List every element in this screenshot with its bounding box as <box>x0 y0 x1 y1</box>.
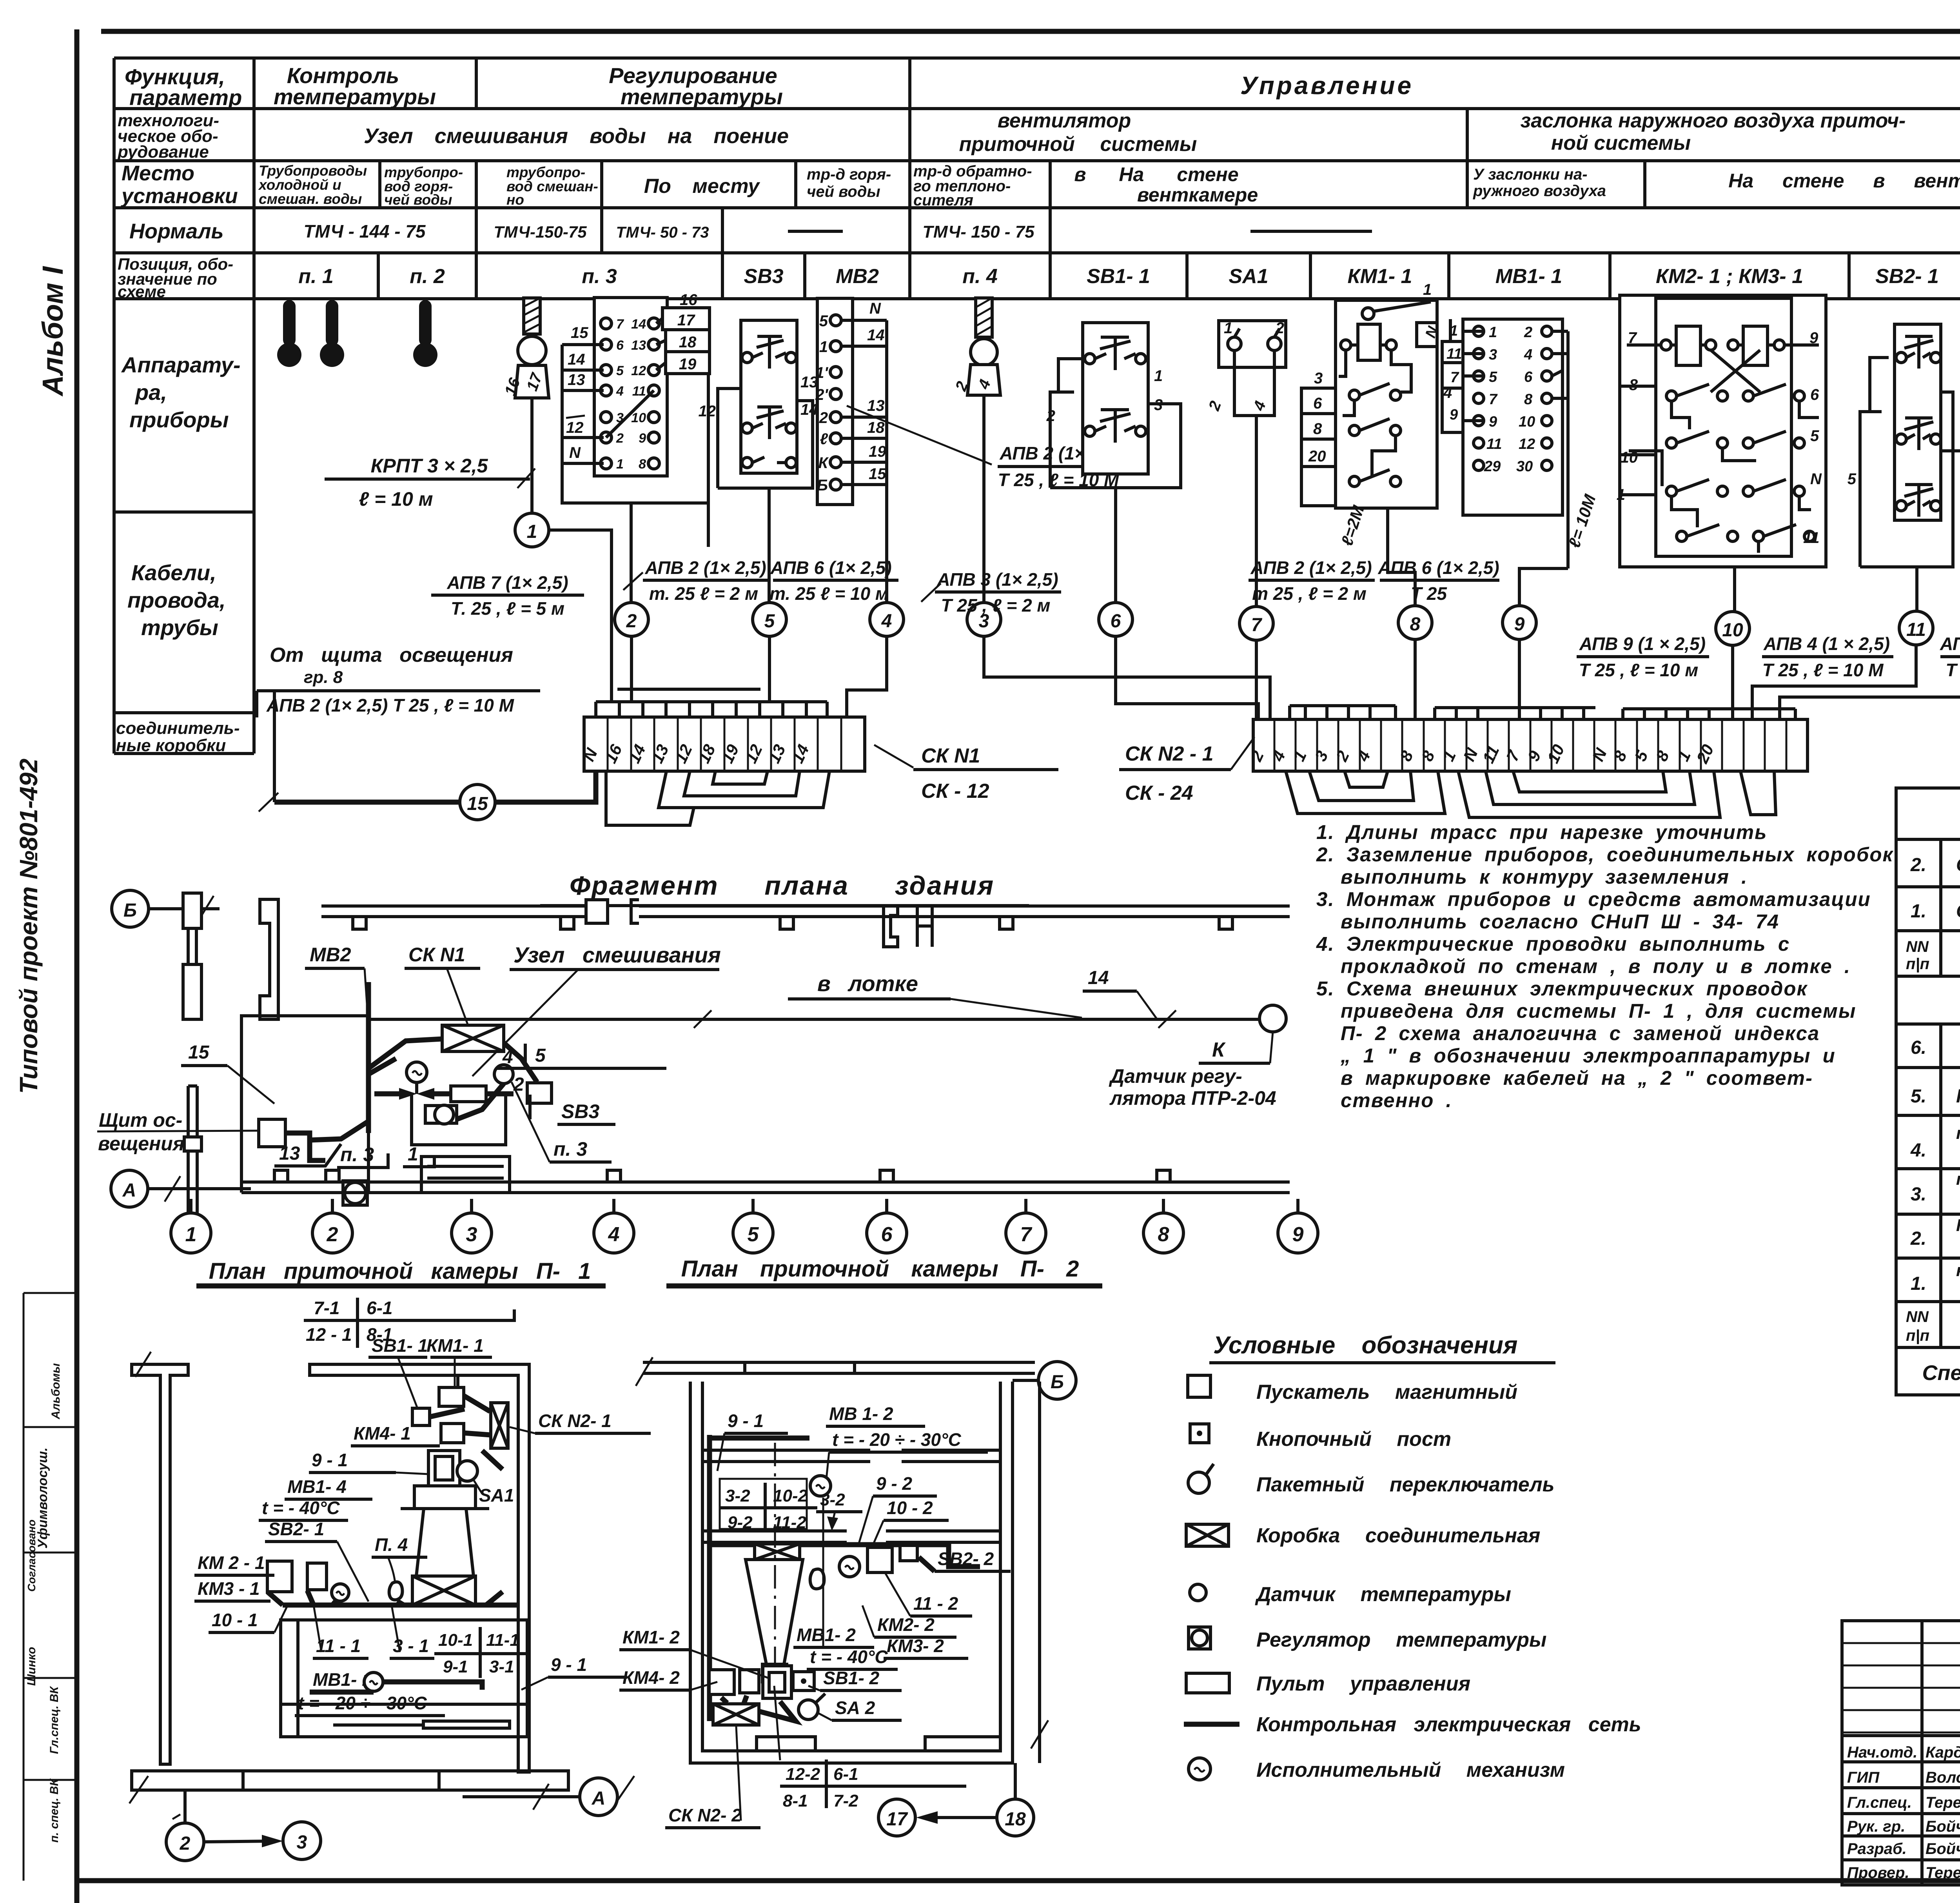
svg-text:8: 8 <box>1524 391 1533 408</box>
svg-text:Разраб.: Разраб. <box>1847 1840 1907 1858</box>
svg-text:Альбом I: Альбом I <box>36 266 69 397</box>
svg-text:1: 1 <box>185 1223 197 1246</box>
wire loops under СК N1 <box>659 771 829 808</box>
svg-text:КМ1- 1: КМ1- 1 <box>1348 265 1412 288</box>
svg-text:Пакетный переключатель: Пакетный переключатель <box>1256 1473 1554 1496</box>
header table texts <box>116 63 1960 755</box>
svg-text:чей воды: чей воды <box>807 183 880 200</box>
svg-text:АПВ 2 (1× 2,5) Т 25 , ℓ = 10: АПВ 2 (1× 2,5) Т 25 , ℓ = 10 М <box>266 695 515 715</box>
notes text <box>1316 821 1894 1111</box>
svg-text:1': 1' <box>815 364 828 381</box>
svg-text:Т. 25 , ℓ = 5 м: Т. 25 , ℓ = 5 м <box>451 598 564 619</box>
svg-text:но: но <box>506 192 524 208</box>
svg-text:СК N2 - 1: СК N2 - 1 <box>1125 743 1214 765</box>
thick cables to boxes <box>430 1409 465 1417</box>
axis 2-3 arrows П-1 <box>166 1790 321 1861</box>
svg-text:СК N2- 2: СК N2- 2 <box>668 1805 742 1825</box>
node 9 <box>1503 606 1536 639</box>
svg-text:Терещенко: Терещенко <box>1926 1794 1960 1811</box>
svg-text:прокладкой по стенам , в полу: прокладкой по стенам , в полу и в лотке … <box>1341 955 1851 977</box>
svg-text:SВ3: SВ3 <box>744 265 783 288</box>
svg-text:7: 7 <box>1020 1223 1033 1246</box>
svg-text:ℓ: ℓ <box>820 430 828 448</box>
svg-text:Т 25: Т 25 <box>1411 583 1447 604</box>
svg-text:Т 25 , ℓ = 10 М: Т 25 , ℓ = 10 М <box>1762 660 1884 680</box>
svg-text:20: 20 <box>1308 448 1326 465</box>
svg-text:2: 2 <box>327 1223 338 1246</box>
wire loops under СК N2-1 <box>1286 771 1445 813</box>
svg-text:9 - 2: 9 - 2 <box>876 1473 912 1494</box>
svg-text:Кардонский: Кардонский <box>1926 1744 1960 1761</box>
svg-text:5: 5 <box>1489 369 1497 385</box>
svg-text:9 - 1: 9 - 1 <box>312 1450 348 1470</box>
svg-text:трубы: трубы <box>141 615 218 640</box>
svg-text:4: 4 <box>502 1047 513 1068</box>
svg-text:лятора ПТР-2-04: лятора ПТР-2-04 <box>1109 1087 1276 1109</box>
svg-text:10-1: 10-1 <box>438 1631 473 1650</box>
svg-text:Кабель с медной жилои: Кабель с медной жилои <box>1956 1216 1960 1235</box>
svg-text:18: 18 <box>679 334 697 351</box>
svg-text:3: 3 <box>466 1223 477 1246</box>
node 7 <box>1240 606 1273 640</box>
svg-text:установки: установки <box>120 184 238 208</box>
svg-text:4.: 4. <box>1910 1140 1926 1161</box>
title block <box>1842 1621 1960 1885</box>
node 1 <box>515 513 549 547</box>
svg-text:Условные обозначения: Условные обозначения <box>1213 1332 1517 1359</box>
svg-text:1.: 1. <box>1911 1273 1926 1294</box>
svg-text:6: 6 <box>1111 611 1121 632</box>
svg-text:7-1: 7-1 <box>314 1298 339 1318</box>
axis bubbles 17 18 <box>878 1799 915 1836</box>
svg-text:5: 5 <box>535 1045 546 1066</box>
svg-text:АПВ 2 (1× 2,5): АПВ 2 (1× 2,5) <box>644 557 766 578</box>
contactors КМ2-1 КМ3-1 <box>1617 295 1826 567</box>
svg-text:П- 2 схема аналогична с за: П- 2 схема аналогична с заменой индекса <box>1341 1022 1820 1044</box>
svg-text:SВ1- 1: SВ1- 1 <box>372 1335 428 1356</box>
svg-text:гр. 8: гр. 8 <box>304 668 343 687</box>
node 8 <box>1398 606 1432 639</box>
svg-text:8: 8 <box>1313 420 1322 438</box>
svg-text:КМ 2 - 1: КМ 2 - 1 <box>198 1553 265 1573</box>
svg-text:Узел смешивания воды на п: Узел смешивания воды на поение <box>364 124 789 148</box>
svg-text:Фрагмент плана здания: Фрагмент плана здания <box>570 871 995 901</box>
node 11 <box>1899 611 1933 645</box>
cable tag АПВ9 <box>1577 634 1709 680</box>
svg-text:6.: 6. <box>1911 1037 1926 1058</box>
svg-text:2: 2 <box>513 1074 524 1095</box>
motor and sensor <box>839 1556 860 1577</box>
svg-text:Бойчук: Бойчук <box>1926 1840 1960 1858</box>
svg-text:п. 3: п. 3 <box>554 1138 587 1160</box>
svg-text:3: 3 <box>297 1832 307 1853</box>
svg-text:п|п: п|п <box>1906 1327 1929 1344</box>
svg-text:5: 5 <box>1847 470 1857 488</box>
svg-text:1. Длины трасс при нарезке: 1. Длины трасс при нарезке уточнить <box>1316 821 1767 843</box>
svg-text:Терещенко: Терещенко <box>1926 1864 1960 1881</box>
КМ2-1 КМ3-1 boxes <box>267 1561 292 1592</box>
node 2 <box>615 603 648 636</box>
svg-text:7: 7 <box>1628 329 1637 347</box>
labels МВ2 СК N1 узел смешивания <box>305 942 721 1076</box>
building plan fragment title <box>540 871 1029 906</box>
wire МВ1-1 down <box>1519 568 1568 606</box>
svg-text:19: 19 <box>869 443 886 460</box>
svg-text:11 - 2: 11 - 2 <box>913 1593 958 1614</box>
svg-text:13: 13 <box>568 371 585 389</box>
room walls <box>310 1364 529 1772</box>
svg-text:6-1: 6-1 <box>833 1765 858 1784</box>
wire from node 1 <box>549 530 612 702</box>
wire КМ2 down <box>1733 567 1736 612</box>
svg-text:11-1: 11-1 <box>486 1631 519 1650</box>
junction СК N2-2 <box>713 1704 759 1725</box>
svg-text:тр-д горя-: тр-д горя- <box>807 166 891 183</box>
svg-text:АПВ 4 (1 × 2,5): АПВ 4 (1 × 2,5) <box>1763 634 1890 654</box>
svg-text:2: 2 <box>819 409 828 427</box>
svg-text:Б: Б <box>1051 1372 1064 1393</box>
svg-text:NN: NN <box>1906 1308 1929 1326</box>
svg-text:Альбомы: Альбомы <box>49 1363 62 1420</box>
labels in fragment plan <box>97 1042 666 1168</box>
cable tag АПВ2 (КМ1-1) <box>1249 557 1375 604</box>
svg-text:АПВ 2 (1 × 2,5): АПВ 2 (1 × 2,5) <box>1940 634 1960 654</box>
svg-text:Управление: Управление <box>1240 71 1414 100</box>
svg-text:СК - 12: СК - 12 <box>921 780 989 803</box>
wire bus over СК N2-1 <box>1290 704 1396 707</box>
cable tag АПВ4 <box>1762 634 1893 680</box>
junction box СК N1 <box>579 689 1058 825</box>
wall column left 2 <box>260 899 278 1019</box>
svg-text:Узел смешивания: Узел смешивания <box>514 942 721 967</box>
svg-text:14: 14 <box>568 351 585 368</box>
wire node2 to СК N1 <box>630 636 633 702</box>
legend Условные обозначения <box>1184 1332 1641 1781</box>
svg-text:„ 1 " в обозначении электроа: „ 1 " в обозначении электроаппаратуры и <box>1340 1044 1836 1067</box>
svg-text:7: 7 <box>1489 391 1498 408</box>
wire SB1-1 down <box>1114 488 1117 603</box>
svg-text:7: 7 <box>1450 369 1459 386</box>
svg-text:3: 3 <box>1314 370 1323 387</box>
svg-text:18: 18 <box>1005 1809 1026 1830</box>
svg-text:МВ1- 4: МВ1- 4 <box>287 1476 347 1497</box>
thermometer п.1 b <box>320 300 344 367</box>
svg-text:1: 1 <box>1423 281 1432 298</box>
svg-text:5: 5 <box>1810 427 1819 445</box>
svg-text:13: 13 <box>279 1143 300 1164</box>
svg-text:ра,: ра, <box>134 380 167 405</box>
svg-text:СК N1: СК N1 <box>921 744 980 767</box>
svg-text:провод с алюминиевой жилой: провод с алюминиевой жилой <box>1956 1169 1960 1189</box>
svg-text:АПВ 2 (1× 2,5): АПВ 2 (1× 2,5) <box>1250 557 1372 578</box>
КМ2-2 boxes <box>867 1547 892 1573</box>
svg-text:сителя: сителя <box>913 192 973 209</box>
svg-text:СК N2- 1: СК N2- 1 <box>538 1411 612 1431</box>
svg-text:14: 14 <box>867 327 885 344</box>
svg-text:SВ1- 1: SВ1- 1 <box>1087 265 1150 288</box>
svg-text:Рук. гр.: Рук. гр. <box>1847 1818 1905 1835</box>
svg-text:У заслонки на-: У заслонки на- <box>1473 166 1588 183</box>
svg-text:5. Схема внешних электрическ: 5. Схема внешних электрических проводок <box>1316 977 1808 1000</box>
svg-text:3: 3 <box>1154 396 1163 414</box>
plan П-2 <box>619 1357 1076 1836</box>
svg-text:Датчик температуры: Датчик температуры <box>1255 1583 1511 1606</box>
svg-text:2: 2 <box>616 431 624 446</box>
svg-text:п|п: п|п <box>1906 955 1929 973</box>
svg-text:3. Монтаж приборов и средст: 3. Монтаж приборов и средств автоматизац… <box>1316 888 1871 910</box>
svg-text:9: 9 <box>639 431 646 446</box>
svg-text:т 25 , ℓ = 2 м: т 25 , ℓ = 2 м <box>1252 583 1367 604</box>
wall I-column <box>132 1364 188 1764</box>
svg-text:19: 19 <box>679 356 697 373</box>
svg-text:п. 2: п. 2 <box>410 265 445 288</box>
svg-text:Гл.спец. ВК: Гл.спец. ВК <box>48 1685 61 1754</box>
svg-text:труба винипластовая: труба винипластовая <box>1956 1124 1960 1143</box>
thermometer п.1 a <box>277 300 301 367</box>
svg-text:Пульт управления: Пульт управления <box>1256 1672 1470 1695</box>
sensor п.4 <box>952 298 1000 395</box>
thick cable run <box>283 1603 518 1608</box>
svg-text:схеме: схеме <box>118 282 166 301</box>
node 5 <box>753 603 786 636</box>
svg-text:Кабели,: Кабели, <box>131 560 216 585</box>
svg-text:SА1: SА1 <box>1229 265 1268 288</box>
svg-text:12-2: 12-2 <box>786 1765 820 1784</box>
от щита освещения feed <box>257 644 540 802</box>
svg-text:СК - 24: СК - 24 <box>1125 782 1193 804</box>
svg-text:3.: 3. <box>1911 1184 1926 1205</box>
svg-text:18: 18 <box>867 419 885 436</box>
wire bus over СК N1 <box>596 700 827 703</box>
svg-text:2: 2 <box>626 611 637 632</box>
sensor п.3 (pos 16/17) <box>501 298 549 398</box>
svg-text:ные коробки: ные коробки <box>116 736 226 755</box>
узел смешивания room <box>241 982 552 1205</box>
svg-text:9 - 1: 9 - 1 <box>728 1411 764 1431</box>
svg-text:заслонка наружного воздуха: заслонка наружного воздуха приточ- <box>1521 109 1906 132</box>
svg-text:2: 2 <box>1275 320 1284 337</box>
wire МВ2 down <box>885 510 888 603</box>
svg-text:1: 1 <box>1224 320 1232 337</box>
cable tag АПВ7 <box>431 572 584 619</box>
svg-text:План приточной камеры П- 2: План приточной камеры П- 2 <box>681 1256 1079 1282</box>
svg-text:9 - 1: 9 - 1 <box>551 1654 587 1675</box>
svg-text:ной системы: ной системы <box>1551 132 1691 154</box>
svg-text:2': 2' <box>815 386 828 403</box>
svg-text:8-1: 8-1 <box>783 1791 808 1810</box>
svg-text:трубопро-: трубопро- <box>506 164 585 180</box>
svg-text:9: 9 <box>1514 614 1525 635</box>
svg-text:15: 15 <box>188 1042 210 1063</box>
svg-text:1: 1 <box>1489 324 1497 341</box>
svg-text:4: 4 <box>608 1223 620 1246</box>
svg-text:А: А <box>122 1180 136 1201</box>
packet switch SA1 <box>1205 320 1286 416</box>
svg-text:16: 16 <box>680 291 697 309</box>
svg-text:АПВ 6 (1× 2,5): АПВ 6 (1× 2,5) <box>770 557 891 578</box>
svg-text:14: 14 <box>800 401 818 418</box>
svg-text:8: 8 <box>639 457 646 472</box>
svg-text:t = - 20 ÷ - 30°С: t = - 20 ÷ - 30°С <box>298 1693 427 1713</box>
section mark А (plan fragment) <box>111 1170 251 1207</box>
svg-text:4: 4 <box>881 611 892 632</box>
svg-text:6: 6 <box>1524 369 1533 385</box>
svg-text:6: 6 <box>616 338 624 353</box>
svg-text:4: 4 <box>616 384 624 399</box>
svg-text:3-2: 3-2 <box>725 1486 750 1505</box>
svg-text:Бойчук: Бойчук <box>1926 1818 1960 1835</box>
tray wire to sensor К <box>370 968 1286 1109</box>
svg-text:соединитель-: соединитель- <box>116 719 240 738</box>
svg-text:приведена для системы П- 1: приведена для системы П- 1 , для системы <box>1341 1000 1856 1022</box>
svg-text:1: 1 <box>1450 323 1458 339</box>
svg-text:Уфимволосуш.: Уфимволосуш. <box>35 1447 50 1549</box>
svg-text:т. 25 ℓ = 2 м: т. 25 ℓ = 2 м <box>649 583 758 604</box>
svg-text:N: N <box>569 444 581 461</box>
svg-text:ГИП: ГИП <box>1847 1769 1880 1786</box>
svg-text:КМ1- 2: КМ1- 2 <box>622 1627 680 1647</box>
wall column left 1 <box>183 893 201 1019</box>
right tables <box>1896 788 1960 1395</box>
svg-text:11 - 1: 11 - 1 <box>316 1636 361 1656</box>
svg-text:К: К <box>1212 1039 1226 1061</box>
svg-text:SВ2- 1: SВ2- 1 <box>1875 265 1939 288</box>
svg-text:SА1: SА1 <box>479 1485 514 1505</box>
svg-text:7: 7 <box>616 317 624 332</box>
svg-text:Контрольная электрическая с: Контрольная электрическая сеть <box>1256 1713 1641 1736</box>
svg-text:П. 4: П. 4 <box>375 1534 408 1555</box>
svg-text:выполнить согласно СНиП Ш -: выполнить согласно СНиП Ш - 34- 74 <box>1341 910 1779 933</box>
svg-text:в лотке: в лотке <box>817 971 918 996</box>
svg-text:венткамере: венткамере <box>1137 184 1258 206</box>
top wall <box>643 1361 1035 1364</box>
svg-text:12: 12 <box>1519 436 1535 452</box>
node 4 <box>870 603 904 636</box>
svg-text:2: 2 <box>180 1833 191 1854</box>
svg-text:Скоба двухлапковая: Скоба двухлапковая <box>1956 901 1960 922</box>
building bottom wall <box>241 1170 1290 1193</box>
svg-text:Регулятор температуры: Регулятор температуры <box>1256 1629 1546 1651</box>
svg-text:Б: Б <box>817 477 828 494</box>
terminal strip МВ1-1 <box>1442 319 1568 568</box>
svg-text:10-2: 10-2 <box>773 1486 808 1505</box>
svg-text:ружного воздуха: ружного воздуха <box>1473 182 1606 200</box>
svg-text:Гл.спец.: Гл.спец. <box>1847 1794 1912 1811</box>
svg-text:СК N1: СК N1 <box>408 944 465 966</box>
svg-text:МВ1- 2: МВ1- 2 <box>797 1625 856 1645</box>
svg-text:9: 9 <box>1450 407 1458 423</box>
svg-text:А: А <box>592 1788 606 1809</box>
svg-text:2: 2 <box>1524 324 1532 341</box>
svg-text:t = - 20 ÷ - 30°С: t = - 20 ÷ - 30°С <box>832 1429 961 1450</box>
wire SB2-1 down <box>1915 567 1918 611</box>
axis bubbles 1-9 <box>171 1199 1318 1253</box>
svg-text:Место: Место <box>122 162 194 185</box>
svg-text:вентилятор: вентилятор <box>998 109 1131 132</box>
wire КМ1-1 down <box>1388 508 1415 606</box>
svg-text:17: 17 <box>677 312 695 329</box>
svg-text:5: 5 <box>764 611 775 632</box>
svg-text:Трубопроводы: Трубопроводы <box>259 163 367 179</box>
svg-text:6: 6 <box>881 1223 893 1246</box>
svg-text:t = - 40°С: t = - 40°С <box>262 1498 340 1518</box>
room walls <box>690 1382 1013 1763</box>
plan titles <box>196 1256 1102 1286</box>
svg-text:11: 11 <box>1803 529 1820 547</box>
svg-text:рудование: рудование <box>117 142 209 162</box>
cable tag АПВ2 (КМ4) <box>1940 634 1960 680</box>
svg-text:АПВ 3 (1× 2,5): АПВ 3 (1× 2,5) <box>936 569 1058 590</box>
svg-text:АПВ 7 (1× 2,5): АПВ 7 (1× 2,5) <box>446 572 568 593</box>
wall piece near Щит <box>184 1086 201 1227</box>
svg-text:Спецификация монтажных м: Спецификация монтажных материалов <box>1922 1361 1960 1385</box>
svg-text:ТМЧ - 144 - 75: ТМЧ - 144 - 75 <box>304 221 426 242</box>
svg-text:АПВ 6 (1× 2,5): АПВ 6 (1× 2,5) <box>1377 557 1499 578</box>
svg-text:Датчик регу-: Датчик регу- <box>1109 1065 1242 1087</box>
svg-text:8: 8 <box>1158 1223 1169 1246</box>
header table grid <box>114 58 1960 754</box>
node 6 <box>1099 603 1132 636</box>
svg-text:смешан. воды: смешан. воды <box>259 191 362 207</box>
svg-text:ТМЧ- 50 - 73: ТМЧ- 50 - 73 <box>616 224 709 241</box>
terminal strip МВ2 <box>815 298 887 510</box>
svg-text:12: 12 <box>631 363 646 378</box>
svg-text:АПВ 9 (1 × 2,5): АПВ 9 (1 × 2,5) <box>1579 634 1706 654</box>
svg-text:Б: Б <box>123 900 137 921</box>
svg-text:п. 1: п. 1 <box>298 265 334 288</box>
svg-text:Т 25 , ℓ = 2 м: Т 25 , ℓ = 2 м <box>941 595 1051 616</box>
svg-text:11: 11 <box>1486 436 1502 452</box>
svg-text:КРПТ 3 × 2,5: КРПТ 3 × 2,5 <box>371 455 488 477</box>
room pen box <box>281 1620 527 1737</box>
svg-text:параметр: параметр <box>129 85 242 110</box>
svg-text:5.: 5. <box>1911 1086 1926 1107</box>
svg-text:Провер.: Провер. <box>1847 1864 1909 1881</box>
cable tag АПВ3 <box>921 569 1061 616</box>
svg-text:11: 11 <box>1906 619 1926 640</box>
svg-text:выполнить к контуру заземле: выполнить к контуру заземления . <box>1341 866 1748 888</box>
cable tag АПВ6 (СК N1) <box>769 557 898 604</box>
svg-text:13: 13 <box>631 338 646 353</box>
svg-text:т. 25 ℓ = 10 м: т. 25 ℓ = 10 м <box>769 583 889 604</box>
svg-text:10: 10 <box>1621 449 1638 466</box>
svg-text:12: 12 <box>566 419 584 436</box>
svg-text:N: N <box>869 300 881 317</box>
svg-text:План приточной камеры П- 1: План приточной камеры П- 1 <box>209 1258 591 1284</box>
svg-text:6-1: 6-1 <box>367 1298 392 1318</box>
svg-text:На стене в венткамере: На стене в венткамере <box>1728 170 1960 192</box>
junction box СК N2-1 <box>491 1403 508 1448</box>
svg-text:п. 4: п. 4 <box>962 265 998 288</box>
terminal block П3 <box>562 291 710 503</box>
svg-text:Пускатель магнитный: Пускатель магнитный <box>1256 1381 1517 1404</box>
svg-text:9: 9 <box>1489 414 1497 430</box>
svg-text:10 - 1: 10 - 1 <box>212 1610 258 1630</box>
svg-text:в маркировке кабелей на: в маркировке кабелей на „ 2 " соответ- <box>1341 1067 1813 1089</box>
svg-text:12 - 1: 12 - 1 <box>306 1324 352 1345</box>
svg-text:Т 25 , ℓ = 10 м: Т 25 , ℓ = 10 м <box>1579 660 1699 680</box>
svg-text:11: 11 <box>632 384 646 399</box>
svg-text:5: 5 <box>819 312 828 330</box>
svg-text:Кнопочный пост: Кнопочный пост <box>1256 1428 1451 1451</box>
cable tag КРПТ <box>325 455 535 510</box>
svg-text:SВ3: SВ3 <box>561 1100 599 1122</box>
svg-text:ℓ = 10 м: ℓ = 10 м <box>359 488 433 510</box>
section mark Б (plan fragment) <box>112 890 220 927</box>
svg-text:Коробка соединительная: Коробка соединительная <box>1256 1524 1540 1547</box>
svg-text:7: 7 <box>1251 615 1263 636</box>
svg-text:10: 10 <box>1722 620 1743 641</box>
